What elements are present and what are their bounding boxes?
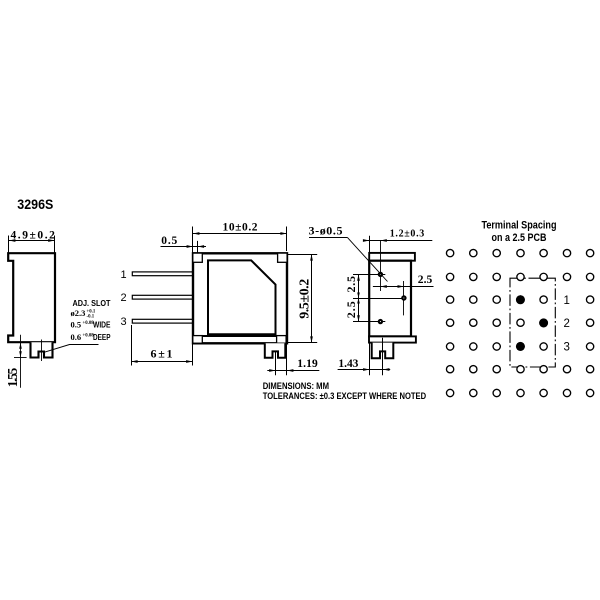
svg-text:4.9±0.2: 4.9±0.2 bbox=[11, 229, 56, 241]
dimension 9.5±0.2 (body height) bbox=[287, 254, 317, 343]
pin 2 hole (solder dot) bbox=[401, 295, 406, 300]
pin 1 hole (solder dot) bbox=[378, 272, 383, 277]
right side view top cap bbox=[369, 253, 415, 261]
svg-text:1.2±0.3: 1.2±0.3 bbox=[390, 228, 425, 239]
svg-text:ø2.3: ø2.3 bbox=[71, 308, 86, 318]
terminal 2 dot bbox=[539, 319, 548, 328]
front view seam line bbox=[193, 335, 287, 337]
svg-text:2.5: 2.5 bbox=[344, 276, 358, 293]
svg-text:2.5: 2.5 bbox=[344, 301, 358, 318]
svg-text:3: 3 bbox=[121, 316, 127, 328]
svg-text:ADJ. SLOT: ADJ. SLOT bbox=[73, 298, 111, 308]
dimension 0.5 (lip offset) bbox=[161, 241, 207, 253]
svg-text:9.5±0.2: 9.5±0.2 bbox=[298, 279, 313, 319]
svg-text:on a 2.5 PCB: on a 2.5 PCB bbox=[492, 232, 547, 244]
dimension 10±0.2 (body width) bbox=[193, 227, 287, 253]
terminal 3 dot bbox=[516, 342, 525, 351]
dimension 1.43 (slot center offset) bbox=[338, 338, 391, 376]
svg-text:3: 3 bbox=[564, 341, 570, 353]
pin 3 hole (solder dot) bbox=[378, 319, 383, 324]
front view body bbox=[193, 253, 287, 343]
svg-text:Terminal Spacing: Terminal Spacing bbox=[481, 220, 556, 232]
svg-text:1.19: 1.19 bbox=[297, 358, 318, 370]
pin 1 hole center lines bbox=[353, 241, 385, 292]
front view corner boss top-left bbox=[193, 253, 203, 262]
right side view body bbox=[369, 261, 411, 337]
side view foot with slot bbox=[31, 342, 53, 357]
svg-text:-0.1: -0.1 bbox=[87, 315, 95, 320]
svg-text:TOLERANCES: ±0.3 EXCEPT WHERE: TOLERANCES: ±0.3 EXCEPT WHERE NOTED bbox=[263, 391, 426, 401]
svg-text:0.5: 0.5 bbox=[71, 319, 82, 329]
svg-text:2.5: 2.5 bbox=[418, 274, 433, 286]
dimension 1.2±0.3 (pin1 offset) bbox=[366, 236, 433, 253]
svg-text:DIMENSIONS: MM: DIMENSIONS: MM bbox=[263, 381, 329, 391]
svg-text:1: 1 bbox=[121, 269, 127, 281]
pin 3 hole center line bbox=[353, 321, 385, 323]
dimension 2.5/2.5 vertical (pin pitch) bbox=[358, 274, 360, 321]
svg-text:2: 2 bbox=[564, 318, 570, 330]
svg-text:10±0.2: 10±0.2 bbox=[223, 222, 258, 234]
PCB outline (dash-dot rectangle) bbox=[510, 278, 555, 367]
dimension 1.19 (slot center to body edge) bbox=[267, 343, 319, 376]
dimension 1.55 (foot height) bbox=[14, 335, 27, 388]
svg-text:WIDE: WIDE bbox=[93, 320, 111, 329]
front view corner boss top-right bbox=[278, 253, 288, 262]
dimension 4.9±0.2 (side view width) bbox=[9, 236, 55, 253]
svg-text:1.55: 1.55 bbox=[5, 368, 20, 388]
pin 2 hole center lines bbox=[353, 281, 406, 315]
front view foot with slot bbox=[265, 343, 286, 358]
svg-text:1: 1 bbox=[564, 295, 570, 307]
front view pin 2 bbox=[132, 295, 193, 299]
svg-text:DEEP: DEEP bbox=[93, 333, 111, 342]
svg-text:0.5: 0.5 bbox=[161, 235, 177, 247]
svg-text:6±1: 6±1 bbox=[151, 346, 173, 360]
front view pin 3 bbox=[132, 319, 193, 323]
front view corner boss bottom-right bbox=[277, 336, 287, 344]
right side view foot with slot bbox=[372, 343, 394, 359]
dimension 2.5 horizontal (pin2 offset) bbox=[373, 286, 434, 288]
PCB hole grid bbox=[446, 249, 593, 396]
right side view bottom flange bbox=[369, 336, 416, 342]
svg-text:0.6: 0.6 bbox=[71, 332, 82, 342]
ADJ. SLOT note block bbox=[71, 298, 112, 342]
leader line to adj slot bbox=[44, 345, 99, 353]
dimension 6±1 (pin length) bbox=[131, 325, 192, 366]
svg-text:3296S: 3296S bbox=[17, 197, 53, 212]
svg-text:3-ø0.5: 3-ø0.5 bbox=[309, 223, 343, 237]
svg-text:2: 2 bbox=[121, 292, 127, 304]
svg-text:1.43: 1.43 bbox=[338, 358, 358, 370]
front view pin 1 bbox=[132, 272, 193, 276]
terminal 1 dot bbox=[516, 295, 525, 304]
side view body (left view) bbox=[8, 253, 55, 342]
front view rotor square with chamfer bbox=[208, 260, 276, 334]
front view corner boss bottom-left bbox=[193, 336, 203, 344]
side view center line bbox=[41, 340, 43, 362]
